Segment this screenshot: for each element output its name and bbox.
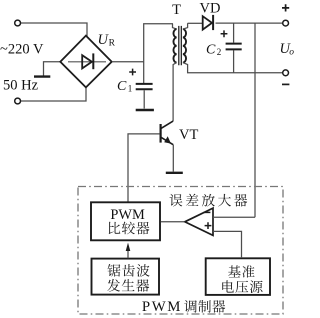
svg-text:PWM: PWM [142,299,182,315]
label - output [282,83,289,85]
ground: C1 bar [136,109,154,112]
terminal: AC input top circle [15,20,21,26]
svg-text:2: 2 [217,47,222,57]
transformer T primary winding [173,24,177,29]
op-amp error amplifier triangle [185,208,213,235]
wire: - input to feedback line [213,216,255,218]
svg-text:C: C [206,43,216,58]
svg-text:50 Hz: 50 Hz [3,78,39,94]
terminal: output + circle [283,20,289,26]
box: PWM comparator [91,202,160,240]
diode VD [203,16,212,29]
box: reference voltage source [206,258,270,295]
dashed box: PWM modulator [78,187,283,315]
bridge diode symbol [68,61,106,63]
capacitor C2 branch wires [233,23,235,73]
ground: AC side bar [34,75,50,77]
capacitor C2 [226,44,242,50]
box: sawtooth generator [92,259,160,295]
label 电压源 [222,280,234,292]
transistor VT emitter with arrow [161,137,173,144]
wire: secondary bottom down and right to minus rail [183,63,283,73]
wire: bridge + output to C1 node [112,61,144,63]
transformer T secondary winding [183,29,186,62]
wire: AC hot top rail [21,23,87,36]
wire: secondary top to diode VD [188,22,202,24]
wire: VD to + output terminal [216,22,283,24]
bridge rectifier diamond [60,36,111,88]
wire: AC neutral bottom rail [21,88,86,101]
label + for C1 [129,69,136,76]
transistor VT collector [161,121,173,129]
label + output [282,4,289,11]
wire: emitter to ground [172,145,174,172]
label + input [205,222,212,229]
svg-text:T: T [172,2,181,18]
label 基准 [228,265,241,277]
label + for C2 [221,30,228,37]
terminal: output - circle [283,70,289,76]
label 误差放大器 [169,194,182,207]
svg-text:R: R [109,39,116,49]
wire: feedback line from + rail down to error amp - input [254,23,256,217]
transistor VT base bar [160,124,162,143]
wire: C1 to ground [143,90,145,108]
svg-text:PWM: PWM [110,207,145,223]
wire: primary bottom to VT collector [173,63,177,122]
wire: + input to reference source [213,231,242,258]
wire: op-amp output to comparator [161,221,185,223]
terminal: AC input bottom circle [15,98,21,104]
svg-text:o: o [289,48,294,58]
label 发生器 [107,279,120,292]
label 比较器 [109,222,121,234]
wire: C1 node up and right to transformer primary [144,24,173,83]
transformer core [179,26,182,65]
label - input [204,211,211,213]
svg-text:VT: VT [179,127,198,143]
capacitor C1 [136,83,153,85]
svg-text:~220 V: ~220 V [0,42,44,58]
wire+arrow: sawtooth to comparator [127,246,129,258]
ground: emitter bar [166,172,183,174]
svg-text:1: 1 [128,84,133,94]
wire: base to PWM comparator [128,134,160,202]
wire: bridge left vertex to AC ground symbol [44,62,61,76]
svg-text:VD: VD [200,0,221,16]
svg-text:C: C [117,79,127,94]
label 锯齿波 [108,264,121,277]
